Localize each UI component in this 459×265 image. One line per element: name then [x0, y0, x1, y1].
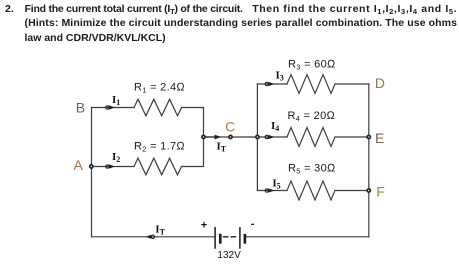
svg-text:F: F — [376, 183, 385, 199]
svg-text:C: C — [225, 118, 235, 134]
svg-text:132V: 132V — [217, 250, 241, 261]
svg-text:IT: IT — [217, 141, 227, 154]
svg-text:I1: I1 — [112, 94, 120, 107]
svg-text:R2 = 1.7Ω: R2 = 1.7Ω — [134, 141, 185, 154]
svg-text:R3 = 60Ω: R3 = 60Ω — [288, 59, 336, 72]
svg-text:R1 = 2.4Ω: R1 = 2.4Ω — [134, 82, 185, 95]
svg-text:E: E — [375, 130, 384, 146]
svg-text:I3: I3 — [276, 70, 284, 83]
svg-text:I2: I2 — [112, 151, 120, 164]
svg-text:I4: I4 — [271, 120, 279, 133]
svg-text:B: B — [76, 100, 85, 116]
svg-text:IT: IT — [155, 224, 165, 237]
svg-text:R4 = 20Ω: R4 = 20Ω — [288, 110, 336, 123]
svg-text:+: + — [201, 219, 207, 231]
svg-text:-: - — [251, 218, 255, 230]
svg-text:R5 = 30Ω: R5 = 30Ω — [288, 163, 336, 176]
svg-text:A: A — [74, 157, 84, 173]
svg-text:D: D — [375, 75, 385, 91]
svg-text:I5: I5 — [272, 177, 280, 190]
